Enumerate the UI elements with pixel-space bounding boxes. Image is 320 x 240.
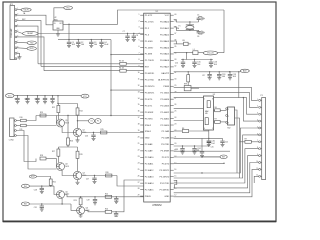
border frame <box>3 2 276 222</box>
wire VCC rail 1 <box>58 39 111 40</box>
svg-text:OUT: OUT <box>59 23 62 25</box>
wire U1 VCC row to net oval <box>174 52 193 53</box>
svg-text:XTAL1: XTAL1 <box>145 130 152 133</box>
svg-text:12: 12 <box>174 195 176 197</box>
wire U2 output loop to top rail <box>63 10 224 24</box>
svg-text:R12: R12 <box>52 107 55 109</box>
resistor R7 <box>214 119 227 124</box>
svg-text:20: 20 <box>138 137 140 139</box>
svg-text:R10: R10 <box>20 117 23 119</box>
svg-text:GND: GND <box>164 196 169 198</box>
svg-text:104: 104 <box>81 44 84 46</box>
svg-text:P3.3/INT1: P3.3/INT1 <box>160 170 170 172</box>
capacitor C18 <box>217 72 225 80</box>
svg-text:C9: C9 <box>14 98 16 100</box>
svg-text:P3.4/T0: P3.4/T0 <box>162 164 170 166</box>
wire U1 row R with resistor R8 <box>174 130 183 132</box>
wire VCC feed stage B <box>67 115 68 138</box>
wire bus b to P1 pin2 <box>174 92 258 107</box>
connector J1 body <box>10 4 15 60</box>
svg-text:P1: P1 <box>97 121 99 123</box>
svg-text:3: 3 <box>139 27 140 29</box>
wire U1 to U3 pin a <box>174 108 204 110</box>
svg-text:P2.4/A12: P2.4/A12 <box>145 169 155 172</box>
svg-text:P2.3/A11: P2.3/A11 <box>161 117 170 120</box>
svg-text:P1.7/SCK: P1.7/SCK <box>145 60 155 62</box>
svg-text:14: 14 <box>138 98 140 100</box>
svg-text:VCC: VCC <box>165 15 170 17</box>
svg-text:P0.5/AD5: P0.5/AD5 <box>160 53 170 56</box>
svg-text:C10: C10 <box>24 98 27 100</box>
voltage regulator U2 body <box>53 17 63 30</box>
wire J1 pin8 to label <box>17 47 27 50</box>
wire stage A output <box>82 132 144 133</box>
svg-text:33: 33 <box>174 59 176 61</box>
capacitor C11 on rail2 <box>34 96 39 104</box>
svg-text:13: 13 <box>138 91 140 93</box>
resistor R13 <box>40 112 46 117</box>
svg-text:C11: C11 <box>34 98 37 100</box>
wire L4 U1 to P1 pin9 <box>174 156 259 188</box>
svg-text:CON4: CON4 <box>9 140 14 142</box>
svg-text:40: 40 <box>174 14 176 16</box>
wire output D to U1 <box>112 180 144 213</box>
svg-text:C26: C26 <box>85 135 88 137</box>
svg-text:P3.1/TXD: P3.1/TXD <box>160 183 170 185</box>
svg-text:23: 23 <box>138 156 140 158</box>
svg-text:C7: C7 <box>123 31 125 33</box>
wire VCC rail 2 <box>14 95 81 96</box>
wire Q5 emitter down <box>61 198 62 205</box>
svg-text:R22: R22 <box>105 193 108 195</box>
capacitor C2 on rail1 <box>76 40 84 48</box>
wire J1 pin5 to RESET label <box>17 32 23 34</box>
svg-text:104: 104 <box>214 64 217 66</box>
wire junction down from AD0 line <box>238 71 239 97</box>
svg-text:6: 6 <box>139 46 140 48</box>
wire R4 to U1 <box>126 70 144 72</box>
wire top rail down right <box>223 10 225 53</box>
svg-text:30: 30 <box>174 78 176 80</box>
svg-text:IN2: IN2 <box>24 204 27 206</box>
wire U2 ground pin <box>57 30 59 34</box>
svg-text:104: 104 <box>233 76 236 78</box>
svg-text:P0.3/AD3: P0.3/AD3 <box>160 40 170 43</box>
svg-text:P0.4/AD4: P0.4/AD4 <box>160 46 170 49</box>
svg-text:8: 8 <box>139 59 140 61</box>
svg-text:U3: U3 <box>213 94 215 96</box>
svg-text:P1.4/SS: P1.4/SS <box>145 41 153 43</box>
svg-text:18: 18 <box>138 124 140 126</box>
svg-text:22: 22 <box>138 149 140 151</box>
wire to net label B <box>202 156 220 158</box>
svg-text:10: 10 <box>138 72 140 74</box>
resistor R17 vertical <box>52 147 60 163</box>
resistor R8 <box>182 128 189 132</box>
svg-text:R7: R7 <box>215 119 217 121</box>
wire U3 right top to connector <box>214 98 258 115</box>
net label RESET <box>23 31 39 35</box>
svg-text:104: 104 <box>222 76 225 78</box>
svg-text:P2.6/A14: P2.6/A14 <box>145 182 155 185</box>
wire U1 row to cap row <box>174 137 202 139</box>
svg-text:R14: R14 <box>80 111 83 113</box>
wire RESET net to U1 <box>38 33 144 34</box>
wire U1 to U3 top <box>174 97 204 99</box>
capacitor C29 on output C <box>86 197 97 205</box>
svg-text:26: 26 <box>174 104 176 106</box>
capacitor C1 on rail1 <box>67 40 75 48</box>
resistor R18 <box>40 155 57 160</box>
svg-text:R21: R21 <box>53 182 56 184</box>
wire stage B top rail <box>58 145 77 147</box>
wire J1 pin1 to net label <box>17 9 21 11</box>
wire VCC feed stage A <box>57 103 77 104</box>
resistor R3 <box>119 61 126 66</box>
svg-text:28: 28 <box>138 188 140 190</box>
connector P1 body and pins <box>256 95 265 180</box>
capacitor C7 on reset line <box>125 34 129 42</box>
svg-text:24: 24 <box>138 162 140 164</box>
svg-text:C8: C8 <box>136 35 138 37</box>
svg-text:GND: GND <box>145 138 150 140</box>
svg-text:EA/VPP: EA/VPP <box>161 72 169 75</box>
wire IN1 line <box>29 185 54 186</box>
svg-text:ALE/PROG: ALE/PROG <box>158 79 169 82</box>
wire U1 row 157 to oval <box>174 156 220 158</box>
svg-text:R8: R8 <box>182 128 184 130</box>
svg-text:R19: R19 <box>80 154 83 156</box>
svg-text:26: 26 <box>138 175 140 177</box>
wire VCC stage C <box>37 177 51 180</box>
svg-text:P0.7/AD7: P0.7/AD7 <box>160 66 170 69</box>
resistor R16 vertical <box>67 138 74 147</box>
net label P0 right <box>240 69 249 72</box>
svg-text:VCC-5V: VCC-5V <box>207 53 214 55</box>
wire rail1 to U1 left <box>110 40 143 116</box>
svg-text:17: 17 <box>138 117 140 119</box>
component FB1 <box>183 40 191 45</box>
svg-text:C31: C31 <box>34 207 37 209</box>
net label RXD0 <box>27 47 36 51</box>
svg-text:P3.3/INT1: P3.3/INT1 <box>145 92 155 94</box>
wire J2 pin4 down to stage B base <box>16 136 56 170</box>
microcontroller U1 AT89S52 <box>138 11 177 207</box>
wire IN2 to Q6 base <box>71 204 76 210</box>
svg-text:P0.6/AD6: P0.6/AD6 <box>160 59 170 62</box>
svg-text:C29: C29 <box>86 200 89 202</box>
svg-text:R16: R16 <box>70 141 73 143</box>
svg-text:16: 16 <box>138 111 140 113</box>
svg-text:R6: R6 <box>215 107 217 109</box>
resistor R9 to P1 <box>240 138 259 143</box>
svg-text:C17: C17 <box>202 75 205 77</box>
svg-text:8: 8 <box>212 99 213 101</box>
wire to Q5 base <box>54 186 57 194</box>
wire J1 pin3 <box>17 19 41 67</box>
module U4 body <box>226 107 235 130</box>
svg-text:9013: 9013 <box>65 122 69 124</box>
capacitor C10 on rail2 <box>24 96 29 104</box>
svg-text:RP1: RP1 <box>184 84 187 86</box>
svg-text:P3.7/RD: P3.7/RD <box>145 118 154 120</box>
wire U4 right b down <box>235 118 240 178</box>
wire R11 to Q1 base <box>26 125 56 127</box>
svg-text:P2.1/A9: P2.1/A9 <box>145 150 153 153</box>
svg-text:104: 104 <box>211 143 214 145</box>
svg-text:11: 11 <box>138 78 140 80</box>
capacitor C5 at XTAL1 <box>197 15 201 22</box>
capacitor C15 <box>192 60 200 68</box>
svg-text:C6: C6 <box>197 36 199 38</box>
svg-text:P2.6/A14: P2.6/A14 <box>160 98 170 101</box>
wire Q1 emitter to Q2 base <box>62 127 73 133</box>
net label VCC rail2 <box>6 94 15 98</box>
svg-text:15: 15 <box>138 104 140 106</box>
svg-text:C14: C14 <box>175 62 178 64</box>
svg-text:AT89S52: AT89S52 <box>152 204 162 207</box>
wire VCC branch down to cap group <box>181 53 213 61</box>
resistor R5 below line <box>187 72 190 86</box>
connector J1 pins <box>15 8 20 60</box>
wire R10 up to base line <box>26 116 36 121</box>
svg-text:32: 32 <box>174 65 176 67</box>
svg-text:P3.0/RXD: P3.0/RXD <box>160 189 170 191</box>
svg-text:24: 24 <box>174 117 176 119</box>
svg-text:P0.1/AD1: P0.1/AD1 <box>160 27 170 30</box>
svg-text:P2.2/A10: P2.2/A10 <box>145 156 155 159</box>
svg-text:29: 29 <box>138 195 140 197</box>
net label VCC right <box>203 51 218 55</box>
svg-text:20: 20 <box>174 143 176 145</box>
svg-text:P1.1/T2X: P1.1/T2X <box>145 21 154 23</box>
wire row6 with component <box>174 43 184 45</box>
svg-text:P3.0/RXD: P3.0/RXD <box>145 73 155 75</box>
transistor Q3 <box>57 163 70 171</box>
svg-text:R9: R9 <box>245 138 247 140</box>
wire oval to top rail corner <box>218 52 224 54</box>
svg-text:485: 485 <box>205 113 208 115</box>
capacitor C6 at XTAL2 <box>197 30 201 38</box>
resistor R4 <box>119 68 126 73</box>
svg-text:9: 9 <box>139 65 140 67</box>
svg-text:P1.6/MI: P1.6/MI <box>145 54 153 56</box>
svg-text:P3.5/T1: P3.5/T1 <box>162 157 170 159</box>
svg-text:AD0: AD0 <box>243 70 247 73</box>
svg-text:23: 23 <box>174 124 176 126</box>
resistor R24 <box>105 209 112 214</box>
svg-text:104: 104 <box>72 44 75 46</box>
svg-text:25: 25 <box>138 169 140 171</box>
svg-text:16: 16 <box>174 169 176 171</box>
svg-text:R18: R18 <box>40 155 43 157</box>
wire J2 pin2 via R11 <box>16 125 20 127</box>
wire Q4 emitter ground <box>77 180 79 182</box>
svg-text:R20: R20 <box>106 172 109 174</box>
net label IN1 <box>21 184 29 188</box>
connector J2 pins <box>14 120 16 137</box>
svg-text:P3.4/T0: P3.4/T0 <box>145 99 153 101</box>
svg-text:VD-IN: VD-IN <box>24 10 30 12</box>
svg-text:C23: C23 <box>175 149 178 151</box>
wire U3 bottom down <box>208 130 210 138</box>
resistor R15 <box>101 129 107 134</box>
resistor R11 <box>20 124 27 131</box>
svg-text:P3.6/WR: P3.6/WR <box>161 151 170 153</box>
resistor R22 <box>105 193 112 198</box>
svg-text:27: 27 <box>174 98 176 100</box>
svg-text:C21: C21 <box>225 142 228 144</box>
wire J2 pin3 down to stage B <box>16 131 36 162</box>
svg-text:13: 13 <box>174 188 176 190</box>
svg-text:IN1: IN1 <box>24 186 27 188</box>
svg-text:P3.5/T1: P3.5/T1 <box>145 105 153 107</box>
svg-text:12: 12 <box>138 85 140 87</box>
svg-text:P2.7/A15: P2.7/A15 <box>160 91 170 94</box>
wire L3 U1 to P1 pin8 <box>174 149 259 183</box>
wire R3 to U1 <box>126 63 144 65</box>
svg-text:P0.0/AD0: P0.0/AD0 <box>160 20 170 23</box>
capacitor C28 shunt <box>34 186 44 194</box>
svg-text:P3.2/INT0: P3.2/INT0 <box>145 86 155 88</box>
resistor R12 vertical <box>52 104 60 120</box>
wire L6 U1 to P1 pin11 <box>174 169 259 196</box>
capacitor C31 shunt <box>34 204 44 211</box>
capacitor C22 shunt <box>196 138 204 157</box>
svg-text:P1.5/MO: P1.5/MO <box>145 47 154 49</box>
transistor Q4 <box>73 171 86 179</box>
capacitor C8 on reset line <box>123 31 139 42</box>
svg-text:P2.2/A10: P2.2/A10 <box>160 124 170 127</box>
wire J1 pin9 to ground <box>17 53 20 56</box>
svg-text:PSEN: PSEN <box>145 196 151 198</box>
connector J2 body <box>9 118 14 142</box>
net label VCC top <box>64 6 73 10</box>
net label OUT1b <box>95 119 101 124</box>
svg-text:R24: R24 <box>105 209 108 211</box>
transistor Q1 <box>57 119 70 127</box>
ground below Q2 <box>76 140 80 142</box>
resistor R14 vertical <box>76 104 83 129</box>
svg-text:R17: R17 <box>52 151 55 153</box>
jog on U1 right pins <box>174 180 177 188</box>
wire U1 to U3 pin b <box>174 120 204 122</box>
wire J1 pin4 with bend down <box>17 26 38 64</box>
wire J1 pin2 to regulator input <box>17 15 53 25</box>
svg-text:12M: 12M <box>176 28 180 30</box>
capacitor C4 on rail1 <box>99 40 109 48</box>
wire to P1 pin12 <box>254 176 258 183</box>
svg-text:1: 1 <box>139 14 140 16</box>
svg-text:7: 7 <box>139 53 140 55</box>
wire to Q3 base <box>56 159 58 167</box>
module U3 body <box>204 94 216 130</box>
svg-text:5: 5 <box>139 40 140 42</box>
net label IN2 <box>21 202 29 206</box>
capacitor C26 on output A <box>85 133 96 141</box>
svg-text:P2.1/A9: P2.1/A9 <box>162 130 170 133</box>
svg-text:5: 5 <box>212 128 213 130</box>
wire to output ovals <box>78 120 89 122</box>
capacitor C14 <box>175 60 185 68</box>
resistor R21 vertical <box>49 179 56 187</box>
capacitor C3 on rail1 <box>89 40 97 48</box>
wire base line feed <box>36 115 144 116</box>
svg-text:P2.5/A13: P2.5/A13 <box>160 104 170 107</box>
wire U1 row9 long to right <box>174 71 241 72</box>
component RP1 box <box>184 84 199 91</box>
wire U1 row 151 <box>174 150 230 152</box>
svg-text:P2.5/A13: P2.5/A13 <box>145 175 155 178</box>
svg-text:R3 1K: R3 1K <box>119 61 125 63</box>
svg-text:4: 4 <box>139 33 140 35</box>
wire bus a to P1 pin1 <box>174 87 258 100</box>
svg-text:19: 19 <box>138 130 140 132</box>
wire Q3 emitter to Q4 base <box>62 170 73 175</box>
svg-text:104: 104 <box>197 64 200 66</box>
wire to Q1 base <box>56 116 58 124</box>
svg-text:29: 29 <box>174 85 176 87</box>
net label VCC stage C <box>29 175 36 178</box>
resistor R10 <box>20 117 27 122</box>
svg-text:P3.1/TXD: P3.1/TXD <box>145 80 155 82</box>
capacitor C32 shunt <box>114 212 118 217</box>
wire L2 U1 to P1 pin6 <box>174 135 259 178</box>
capacitor C25 <box>207 141 214 148</box>
svg-text:R15: R15 <box>101 129 104 131</box>
resistor R20 <box>106 172 112 177</box>
svg-text:O1: O1 <box>90 121 92 123</box>
svg-text:P2.7/A15: P2.7/A15 <box>145 188 155 191</box>
svg-text:R4 1K: R4 1K <box>119 68 125 70</box>
svg-text:L1: L1 <box>193 49 195 51</box>
wire L5 U1 to P1 pin10 <box>174 163 259 193</box>
svg-text:R23: R23 <box>74 200 77 202</box>
svg-text:21: 21 <box>138 143 140 145</box>
wire U2 top to VCC label <box>54 8 64 21</box>
capacitor C13 on rail2 <box>50 96 54 104</box>
wire line C to U1 <box>44 70 120 72</box>
capacitor C20 <box>207 138 215 146</box>
svg-text:P2.4/A12: P2.4/A12 <box>160 111 170 114</box>
wire to P1 pin4 <box>243 97 259 121</box>
svg-text:RST: RST <box>145 67 150 69</box>
svg-text:P3.2/INT0: P3.2/INT0 <box>160 176 170 178</box>
wire bead to oval <box>198 52 203 54</box>
net label VD1 <box>21 8 31 15</box>
svg-text:XS2: XS2 <box>227 128 230 130</box>
ground at J1 pin9 <box>18 57 22 59</box>
wire U1 row 163 <box>174 163 225 164</box>
svg-text:RESET: RESET <box>27 33 34 35</box>
wire U1 pin jog row5 <box>174 41 177 44</box>
capacitor C27 on output B <box>86 176 97 184</box>
svg-text:P1.0/T2: P1.0/T2 <box>145 15 153 17</box>
svg-text:2: 2 <box>139 20 140 22</box>
net label TXD0 <box>27 41 36 45</box>
capacitor C21 <box>220 138 228 146</box>
svg-text:27: 27 <box>138 182 140 184</box>
wire IN2 line <box>29 203 71 204</box>
svg-text:P2.0/A8: P2.0/A8 <box>162 137 170 140</box>
crystal Y1 <box>176 22 194 30</box>
transistor Q6 <box>77 206 90 214</box>
capacitor C30 shunt small <box>114 197 118 204</box>
svg-text:C28: C28 <box>34 189 37 191</box>
wire Q2 emitter ground <box>77 137 79 140</box>
wire XTAL2 from U1 <box>174 27 199 31</box>
svg-text:C27: C27 <box>86 178 89 180</box>
